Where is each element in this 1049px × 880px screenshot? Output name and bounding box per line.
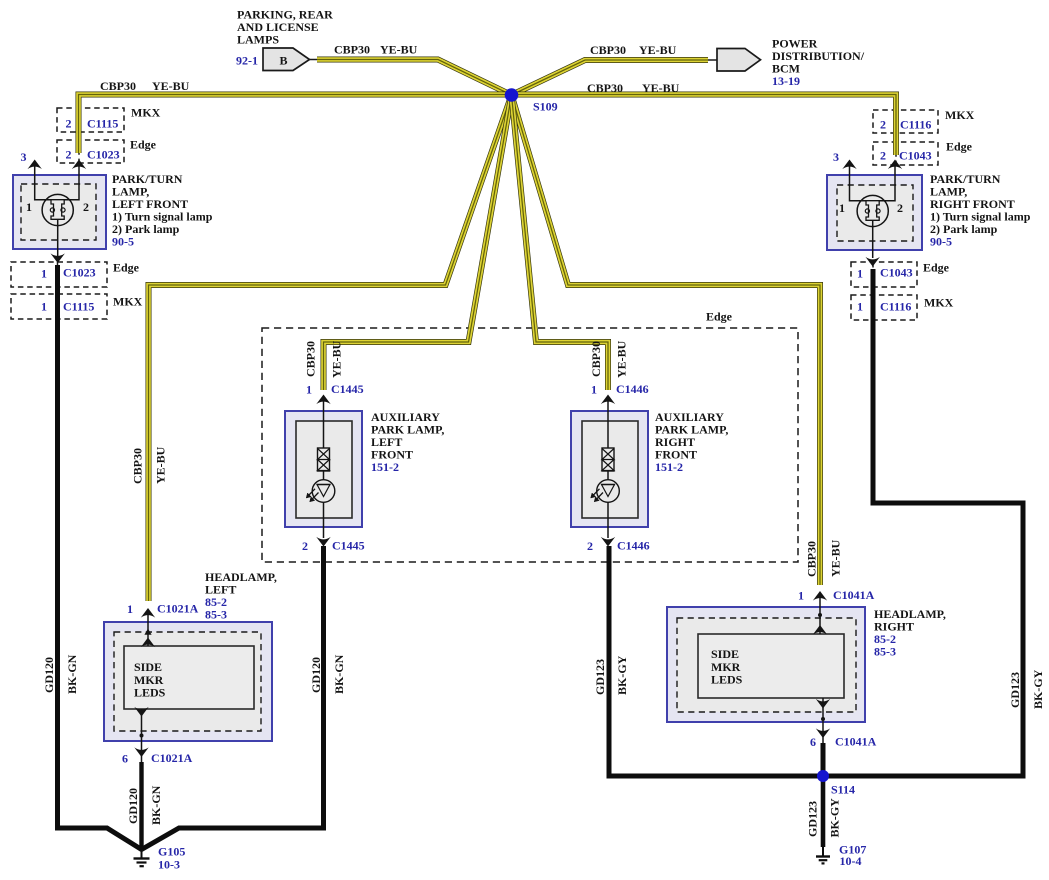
connector box C1023 pin2 (Edge) top-left: [57, 140, 124, 163]
auxiliary park lamp right front box: [571, 411, 648, 527]
svg-text:C1043: C1043: [880, 266, 913, 280]
auxiliary park lamp left inner housing: [296, 421, 352, 518]
svg-text:YE-BU: YE-BU: [330, 340, 344, 378]
wire aux-right lamp internal lead: [607, 399, 609, 448]
ground G105: [134, 849, 150, 866]
wire CBP30 YE-BU from splice S109 to POWER DISTRIBUTION/BCM: [512, 60, 709, 95]
svg-text:LEDS: LEDS: [711, 673, 743, 687]
junction dot headlamp-right at dashed housing: [821, 717, 825, 721]
connector box C1116 pin1 (MKX) below right lamp: [851, 295, 917, 320]
svg-text:Edge: Edge: [113, 261, 140, 275]
svg-text:YE-BU: YE-BU: [380, 43, 418, 57]
wire CBP30 YE-BU from splice S109 to left headlamp C1021A: [149, 95, 512, 601]
connector box C1115 pin2 (MKX) top-left: [57, 108, 124, 132]
svg-text:Edge: Edge: [130, 138, 157, 152]
svg-text:1: 1: [127, 602, 133, 616]
svg-text:CBP30: CBP30: [589, 341, 603, 377]
LED aux-right: [597, 480, 620, 503]
splice S109: [505, 88, 519, 102]
wire aux-right between resistor and LED: [607, 471, 609, 480]
svg-text:C1021A: C1021A: [151, 751, 193, 765]
svg-text:LEDS: LEDS: [134, 686, 166, 700]
svg-text:C1116: C1116: [900, 118, 931, 132]
small arrow headlamp-left at dashed housing (up): [144, 629, 151, 635]
arrow aux-left top (up): [316, 395, 330, 405]
arrow pin2 right lamp (up): [888, 160, 902, 170]
svg-text:1: 1: [839, 201, 845, 215]
svg-text:YE-BU: YE-BU: [615, 340, 629, 378]
svg-text:CBP30: CBP30: [590, 43, 626, 57]
svg-text:LAMPS: LAMPS: [237, 33, 279, 47]
ARROWS: [28, 160, 903, 758]
svg-text:90-5: 90-5: [930, 235, 952, 249]
svg-text:SIDE: SIDE: [134, 660, 162, 674]
splice S114: [817, 770, 829, 782]
svg-text:GD123: GD123: [806, 801, 820, 837]
headlamp left inner dashed housing: [114, 632, 261, 731]
wire CBP30 YE-BU from connector B to splice S109: [317, 60, 512, 96]
arrow left lamp bottom (down): [51, 253, 65, 263]
svg-text:C1446: C1446: [616, 382, 649, 396]
arrow headlamp-left below box / pin6 (down): [134, 747, 148, 757]
wire lamp-right bottom lead: [872, 220, 874, 258]
svg-text:1: 1: [26, 200, 32, 214]
svg-text:1: 1: [41, 300, 47, 314]
svg-text:2: 2: [897, 201, 903, 215]
wire GD123 BK-GY right headlamp pin6 down to splice S114: [821, 743, 826, 776]
svg-text:C1021A: C1021A: [157, 602, 199, 616]
svg-text:CBP30: CBP30: [587, 81, 623, 95]
svg-text:YE-BU: YE-BU: [829, 539, 843, 577]
wire CBP30 YE-BU from splice S109 to left auxiliary park lamp C1445: [324, 95, 512, 390]
svg-text:BK-GN: BK-GN: [65, 654, 79, 694]
THIN WIRES AND COMPONENT SYMBOLS: [35, 166, 895, 762]
lamp left: bulb circle: [42, 194, 73, 225]
svg-text:CBP30: CBP30: [805, 541, 819, 577]
wire stub from YE-BU wire to BCM pentagon: [706, 59, 717, 61]
svg-text:1: 1: [306, 383, 312, 397]
headlamp right box: [667, 607, 865, 722]
wire GD120 BK-GN left park/turn lamp ground run to G105: [58, 265, 324, 850]
wire lamp-right pin2 lead: [879, 166, 895, 201]
park/turn lamp right inner dashed housing: [837, 185, 913, 241]
wire GD123 BK-GY right park/turn lamp run down, across bottom, to right aux lamp: [609, 269, 1023, 776]
svg-text:6: 6: [122, 752, 128, 766]
svg-text:3: 3: [21, 150, 27, 164]
park/turn lamp left inner dashed housing: [21, 184, 96, 240]
svg-text:BK-GY: BK-GY: [615, 655, 629, 695]
svg-text:2: 2: [302, 539, 308, 553]
svg-text:6: 6: [810, 735, 816, 749]
wire lamp-left pin3 lead: [35, 166, 51, 200]
svg-text:YE-BU: YE-BU: [152, 79, 190, 93]
arrow pin2 left lamp (up): [72, 160, 86, 170]
svg-text:1: 1: [591, 383, 597, 397]
svg-text:2: 2: [83, 200, 89, 214]
connector box C1116 pin2 (MKX) top-right: [873, 110, 938, 133]
junction dot headlamp-left at dashed housing: [140, 734, 144, 738]
wire headlamp-right connector to SIDE MKR LEDS: [819, 598, 821, 634]
arrow pin3 left lamp (up): [28, 160, 42, 170]
connector box C1043 pin1 (Edge) below right lamp: [851, 262, 917, 287]
pentagon to POWER DISTRIBUTION/BCM 13-19: [717, 49, 761, 72]
svg-text:S109: S109: [533, 100, 558, 114]
svg-text:G105: G105: [158, 845, 185, 859]
svg-text:1: 1: [798, 589, 804, 603]
svg-text:S114: S114: [831, 783, 855, 797]
svg-text:2: 2: [66, 117, 72, 131]
svg-text:Edge: Edge: [923, 261, 950, 275]
svg-text:C1115: C1115: [87, 117, 118, 131]
wire aux-right LED to box bottom: [607, 502, 609, 538]
svg-text:C1115: C1115: [63, 300, 94, 314]
svg-text:C1445: C1445: [332, 539, 365, 553]
svg-text:1: 1: [857, 300, 863, 314]
svg-text:C1043: C1043: [899, 149, 932, 163]
wire GD123 BK-GY splice S114 to ground G107: [821, 776, 826, 847]
arrow headlamp-left below LEDS block (down): [134, 707, 148, 717]
svg-text:GD120: GD120: [309, 657, 323, 693]
wire headlamp-right SIDE MKR LEDS to pin6: [822, 698, 824, 743]
svg-text:GD120: GD120: [126, 788, 140, 824]
connector B pentagon (to PARKING, REAR AND LICENSE LAMPS 92-1): [263, 48, 310, 71]
svg-text:10-4: 10-4: [840, 854, 862, 868]
svg-text:1: 1: [41, 267, 47, 281]
svg-text:CBP30: CBP30: [100, 79, 136, 93]
svg-text:2: 2: [66, 148, 72, 162]
svg-text:1: 1: [857, 267, 863, 281]
svg-text:92-1: 92-1: [236, 54, 258, 68]
svg-text:BK-GY: BK-GY: [1031, 669, 1045, 709]
lamp right: bulb filament outline: [866, 201, 879, 221]
wire lamp-left bottom lead: [57, 219, 59, 256]
connector box C1043 pin2 (Edge) top-right: [873, 142, 938, 165]
svg-text:YE-BU: YE-BU: [154, 446, 168, 484]
lamp left: filament contact dots: [50, 208, 54, 212]
svg-text:GD123: GD123: [593, 659, 607, 695]
svg-text:GD120: GD120: [42, 657, 56, 693]
wire CBP30 YE-BU from splice S109 to right auxiliary park lamp C1446: [512, 95, 609, 390]
wire aux-left lamp internal lead: [323, 399, 325, 448]
svg-text:CBP30: CBP30: [334, 43, 370, 57]
connector box C1115 pin1 (MKX) below left lamp: [11, 294, 107, 319]
resistor element aux-right: [602, 448, 614, 471]
auxiliary park lamp left front box: [285, 411, 362, 527]
svg-text:2: 2: [880, 149, 886, 163]
svg-text:C1116: C1116: [880, 300, 911, 314]
arrow pin3 right lamp (up): [842, 160, 856, 170]
svg-text:SIDE: SIDE: [711, 647, 739, 661]
svg-text:CBP30: CBP30: [131, 448, 145, 484]
svg-text:BK-GN: BK-GN: [332, 654, 346, 694]
LED aux-left: [312, 480, 335, 503]
svg-text:BK-GN: BK-GN: [149, 785, 163, 825]
wire stub from B pentagon to YE-BU wire: [310, 59, 319, 61]
svg-text:Edge: Edge: [706, 310, 733, 324]
lamp right: filament contact dots: [865, 209, 869, 213]
arrow right lamp bottom (down): [866, 257, 880, 267]
svg-text:YE-BU: YE-BU: [639, 43, 677, 57]
svg-text:13-19: 13-19: [772, 74, 800, 88]
lamp right: bulb circle: [857, 195, 888, 226]
svg-text:90-5: 90-5: [112, 235, 134, 249]
svg-text:BK-GY: BK-GY: [828, 798, 842, 838]
svg-text:C1041A: C1041A: [835, 735, 877, 749]
svg-text:2: 2: [587, 539, 593, 553]
arrow headlamp-right connector C1041A (up): [813, 591, 827, 601]
park/turn lamp right front box: [827, 175, 922, 250]
svg-text:C1446: C1446: [617, 539, 650, 553]
svg-text:CBP30: CBP30: [304, 341, 318, 377]
connector box C1023 pin1 (Edge) below left lamp: [11, 262, 107, 287]
svg-text:C1023: C1023: [87, 148, 120, 162]
svg-text:GD123: GD123: [1008, 672, 1022, 708]
lamp left: bulb filament outline: [51, 200, 64, 220]
svg-text:MKX: MKX: [113, 295, 143, 309]
wire CBP30 YE-BU main horizontal bus with drops to left/right park-turn lamps: [79, 95, 897, 156]
svg-text:MKX: MKX: [131, 106, 161, 120]
arrow headlamp-right at LEDS block (up): [813, 625, 827, 635]
svg-text:151-2: 151-2: [655, 460, 683, 474]
wire headlamp-left SIDE MKR LEDS to pin6: [141, 709, 143, 762]
ground G107: [816, 847, 830, 863]
svg-text:YE-BU: YE-BU: [642, 81, 680, 95]
arrow headlamp-right below box / pin6 (down): [816, 728, 830, 738]
arrow headlamp-left connector C1021A (up): [141, 608, 155, 618]
BOXES: [0, 0, 1, 1]
arrow aux-left bottom (down): [316, 537, 330, 547]
svg-text:C1041A: C1041A: [833, 588, 875, 602]
svg-text:C1445: C1445: [331, 382, 364, 396]
svg-text:3: 3: [833, 150, 839, 164]
arrow headlamp-right below LEDS block (down): [816, 699, 830, 709]
arrow aux-right top (up): [601, 395, 615, 405]
svg-text:85-3: 85-3: [205, 608, 227, 622]
headlamp right SIDE MKR LEDS block: [698, 634, 844, 698]
svg-text:B: B: [280, 54, 288, 68]
svg-text:MKX: MKX: [924, 296, 954, 310]
park/turn lamp left front box: [13, 175, 106, 249]
svg-text:2: 2: [880, 118, 886, 132]
svg-text:151-2: 151-2: [371, 460, 399, 474]
resistor element aux-left: [318, 448, 330, 471]
wire GD120 BK-GN left headlamp pin6 down to ground point: [139, 762, 143, 850]
auxiliary park lamp right inner housing: [582, 421, 638, 518]
svg-text:MKX: MKX: [945, 108, 975, 122]
svg-text:85-3: 85-3: [874, 645, 896, 659]
wire aux-left between resistor and LED: [323, 471, 325, 480]
headlamp right inner dashed housing: [677, 618, 856, 712]
wire lamp-right pin3 lead: [850, 166, 867, 201]
wire aux-left LED to box bottom: [323, 502, 325, 538]
Edge module dashed boundary box: [262, 328, 798, 562]
arrow aux-right bottom (down): [601, 537, 615, 547]
arrow headlamp-left at LEDS block (up): [141, 638, 155, 648]
svg-text:Edge: Edge: [946, 140, 973, 154]
svg-text:C1023: C1023: [63, 266, 96, 280]
svg-text:10-3: 10-3: [158, 858, 180, 872]
junction dot headlamp-right at box top: [818, 613, 822, 617]
wire CBP30 YE-BU from splice S109 to right headlamp C1041A: [512, 95, 821, 585]
headlamp left box: [104, 622, 272, 741]
BOXES: [11, 48, 938, 741]
wire headlamp-left connector to SIDE MKR LEDS: [147, 615, 149, 646]
wire lamp-left pin2 lead: [64, 166, 79, 200]
headlamp left SIDE MKR LEDS block: [124, 646, 254, 709]
